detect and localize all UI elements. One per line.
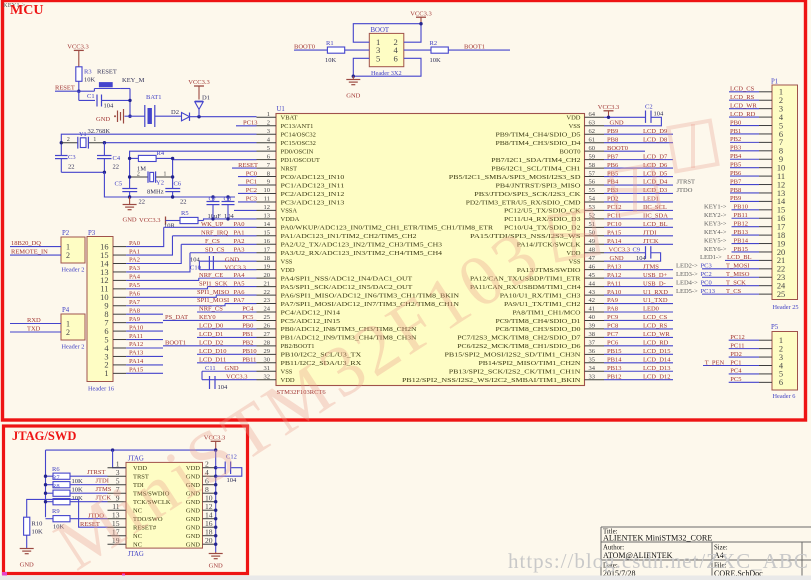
pin 32 VDD xyxy=(257,373,295,384)
wire P1 pin12 PB7 xyxy=(730,178,772,185)
wire pin64 VCC3.3 with capacitor C2 xyxy=(604,103,664,126)
wire row pin16 PA2 xyxy=(181,243,256,245)
svg-text:PA13: PA13 xyxy=(607,263,621,270)
net label JTDO xyxy=(88,512,104,519)
svg-text:LCD_D12: LCD_D12 xyxy=(643,373,670,380)
svg-text:PC13/ANT1: PC13/ANT1 xyxy=(281,123,314,130)
svg-text:104: 104 xyxy=(104,103,115,110)
pin 54 PD2 xyxy=(466,196,604,207)
svg-text:8: 8 xyxy=(267,170,270,177)
svg-text:64: 64 xyxy=(589,111,596,118)
pin 12 VSSA xyxy=(257,204,298,215)
pin 64 VDD xyxy=(566,111,604,122)
svg-text:RESET: RESET xyxy=(97,69,117,76)
pin 21 PA5 xyxy=(257,280,413,291)
wire P1 pin23 LED3->PC2 T_MISO xyxy=(676,271,772,278)
wire row pin23 PA7 xyxy=(225,303,257,305)
svg-text:MCU: MCU xyxy=(10,3,43,18)
svg-text:9: 9 xyxy=(267,179,270,186)
svg-text:KEY3->: KEY3-> xyxy=(704,220,727,227)
wire P1 pin14 PB9 xyxy=(730,195,772,202)
JTAG/SWD section title xyxy=(12,429,76,443)
wire P1 pin6 PB1 xyxy=(730,128,772,135)
svg-text:PB12/SPI2_NSS/I2S2_WS/I2C2_SMB: PB12/SPI2_NSS/I2S2_WS/I2C2_SMBAI/TIM1_BK… xyxy=(402,377,581,384)
wire row pin28 PB2 xyxy=(163,345,257,347)
wire row pin42 PA9 xyxy=(604,297,673,304)
svg-text:GND: GND xyxy=(610,255,624,262)
svg-text:PC3/ADC123_IN13: PC3/ADC123_IN13 xyxy=(281,199,345,206)
svg-text:PA10: PA10 xyxy=(129,324,143,331)
svg-text:PA10: PA10 xyxy=(607,289,621,296)
svg-text:18: 18 xyxy=(264,255,271,262)
svg-text:JTDO: JTDO xyxy=(677,187,693,194)
wire pin48 VCC3.3 with capacitor C9 xyxy=(604,246,661,262)
svg-text:PC9: PC9 xyxy=(607,314,618,321)
pin 30 PB11 xyxy=(257,356,362,367)
svg-text:10K: 10K xyxy=(84,77,96,84)
resistor R2 xyxy=(430,40,449,64)
svg-text:PD2: PD2 xyxy=(730,351,742,358)
power VCC3.3 (D1) xyxy=(188,79,210,100)
svg-text:PC3: PC3 xyxy=(701,263,712,270)
svg-text:T_MISO: T_MISO xyxy=(726,271,750,278)
svg-text:10K: 10K xyxy=(325,57,337,64)
wire P3 PA8 xyxy=(113,307,163,314)
label JTDO (PB3) xyxy=(677,187,693,194)
svg-text:SPI1_MOSI: SPI1_MOSI xyxy=(197,297,229,304)
stub JTAG pin 9 xyxy=(108,501,127,503)
svg-text:PC4: PC4 xyxy=(242,306,254,313)
svg-text:19: 19 xyxy=(264,263,271,270)
pin 10 PC2 xyxy=(257,187,345,198)
svg-text:PC8/TIM8_CH3/SDIO_D0: PC8/TIM8_CH3/SDIO_D0 xyxy=(496,326,581,333)
wire P1 pin17 KEY3 PB12 xyxy=(704,220,772,227)
net label JTDI xyxy=(96,477,109,484)
pin 24 PC4 xyxy=(257,306,341,317)
svg-text:5: 5 xyxy=(267,145,270,152)
svg-text:P5: P5 xyxy=(771,324,779,331)
svg-text:T_CS: T_CS xyxy=(726,288,742,295)
wire row pin17 PA3 xyxy=(190,252,257,254)
pin 25 PC5 xyxy=(257,314,341,325)
svg-text:20: 20 xyxy=(205,536,213,545)
svg-text:R1: R1 xyxy=(326,40,334,47)
wire P1 pin19 KEY5 PB14 xyxy=(704,237,772,244)
svg-text:PD1/OSCOUT: PD1/OSCOUT xyxy=(281,157,320,164)
resistor R1 xyxy=(325,40,345,64)
svg-text:U1_RXD: U1_RXD xyxy=(643,289,668,296)
svg-text:17: 17 xyxy=(264,246,271,253)
pin 5 PD0 xyxy=(257,145,314,156)
svg-text:R4: R4 xyxy=(157,150,165,157)
resistor R10 10K xyxy=(24,499,79,548)
svg-text:2: 2 xyxy=(67,136,70,143)
pin 8 PC0 xyxy=(257,170,345,181)
pin 40 PC9 xyxy=(496,314,605,325)
wire P1 pin25 LED5->PC13 T_CS xyxy=(676,288,772,295)
svg-text:WK_UP: WK_UP xyxy=(201,221,224,228)
svg-text:LED5->: LED5-> xyxy=(676,288,698,295)
svg-text:59: 59 xyxy=(589,153,596,160)
svg-text:LCD_D1: LCD_D1 xyxy=(199,331,223,338)
wire row pin58 PB6 xyxy=(604,162,673,169)
svg-text:30: 30 xyxy=(264,356,271,363)
svg-text:LCD_D11: LCD_D11 xyxy=(199,356,226,363)
svg-text:LCD_D7: LCD_D7 xyxy=(643,153,668,160)
svg-text:R8: R8 xyxy=(52,483,60,490)
pin 34 PB13 xyxy=(449,365,604,376)
wire P1 pin21 LED1 LCD_BL xyxy=(700,254,772,261)
svg-text:R10: R10 xyxy=(32,521,43,528)
net label PC13 pin2 xyxy=(236,119,258,126)
pin 43 PA10 xyxy=(500,289,604,300)
wire P1 pin8 PB3 xyxy=(730,145,772,152)
svg-text:PD0/OSCIN: PD0/OSCIN xyxy=(281,148,314,155)
pin 59 PB7 xyxy=(491,153,604,164)
svg-text:R5: R5 xyxy=(181,210,189,217)
svg-text:35: 35 xyxy=(589,356,596,363)
svg-text:PB4: PB4 xyxy=(730,153,742,160)
svg-text:PC0: PC0 xyxy=(246,170,257,177)
svg-text:LCD_D10: LCD_D10 xyxy=(199,348,226,355)
pin 48 VDD xyxy=(566,246,604,257)
wire row pin50 PA15 xyxy=(604,230,673,237)
pin 41 PA8 xyxy=(513,306,605,317)
svg-text:RXD: RXD xyxy=(27,317,41,324)
svg-text:C1: C1 xyxy=(87,93,95,100)
svg-text:PA2: PA2 xyxy=(129,257,140,264)
ground (JTAG right) xyxy=(209,552,223,570)
svg-text:VCC3.3: VCC3.3 xyxy=(598,104,620,111)
pin 53 PC12 xyxy=(504,204,604,215)
svg-text:PB9/TIM4_CH4/SDIO_D5: PB9/TIM4_CH4/SDIO_D5 xyxy=(496,132,581,139)
svg-text:USB_D-: USB_D- xyxy=(643,280,666,287)
svg-text:Header 16: Header 16 xyxy=(88,386,114,393)
svg-text:42: 42 xyxy=(589,297,596,304)
wire P1 pin15 KEY1 PB10 xyxy=(704,204,772,211)
header P5 Header 6 xyxy=(771,324,798,400)
bottom edge band xyxy=(0,576,811,580)
svg-text:ALIENTEK MiniSTM32_CORE: ALIENTEK MiniSTM32_CORE xyxy=(603,534,712,543)
svg-text:PA1/ADC123_IN1/TIM2_CH2/TIM5_C: PA1/ADC123_IN1/TIM2_CH2/TIM5_CH2 xyxy=(281,233,417,240)
svg-text:PB15: PB15 xyxy=(607,348,621,355)
svg-text:PA3/U2_RX/ADC123_IN3/TIM2_CH4/: PA3/U2_RX/ADC123_IN3/TIM2_CH4/TIM5_CH4 xyxy=(281,250,443,257)
diode D2 xyxy=(171,109,257,121)
svg-text:PB5/I2C1_SMBA/SPI3_MOSI/I2S3_S: PB5/I2C1_SMBA/SPI3_MOSI/I2S3_SD xyxy=(449,174,581,181)
svg-text:PC14/OSC32: PC14/OSC32 xyxy=(281,132,316,139)
pin 60 BOOT0 xyxy=(560,145,604,156)
pin 29 PB10 xyxy=(257,348,362,359)
svg-text:PC12: PC12 xyxy=(730,334,744,341)
wire P5 pin1 PC12 xyxy=(729,334,772,341)
wire pin3 PC14 to crystal xyxy=(60,134,257,155)
net label RESET (JTAG) xyxy=(79,499,108,528)
diode D1 xyxy=(195,95,210,117)
wire P1 pin10 PB5 xyxy=(730,161,772,168)
wire P1 pin16 KEY2 PB11 xyxy=(704,212,772,219)
wire P3 PA3 xyxy=(113,253,190,272)
net label PC5 xyxy=(242,314,253,321)
svg-text:104: 104 xyxy=(636,255,647,262)
wire row pin60 BOOT0 xyxy=(604,145,645,152)
net label PA2 xyxy=(234,238,245,245)
svg-text:LCD_RS: LCD_RS xyxy=(730,94,755,101)
corner text KEY1 xyxy=(3,2,26,9)
svg-text:10K: 10K xyxy=(32,529,44,536)
svg-text:6: 6 xyxy=(394,53,399,63)
pin 33 PB12 xyxy=(402,373,604,384)
svg-text:1: 1 xyxy=(104,369,108,378)
svg-text:PA15: PA15 xyxy=(607,230,621,237)
wire row pin26 PB0 xyxy=(197,328,257,330)
svg-text:16: 16 xyxy=(264,238,271,245)
svg-text:GND: GND xyxy=(225,257,239,264)
svg-text:14: 14 xyxy=(264,221,271,228)
svg-text:GND: GND xyxy=(186,542,200,549)
svg-text:GND: GND xyxy=(186,525,200,532)
svg-text:PB10: PB10 xyxy=(734,204,748,211)
svg-text:PC2: PC2 xyxy=(701,271,712,278)
connector JTAG (box) xyxy=(112,456,213,559)
svg-text:GND: GND xyxy=(186,533,200,540)
svg-text:GND: GND xyxy=(96,116,110,123)
wire P1 pin24 LED4->PC0 T_SCK xyxy=(676,279,772,286)
svg-text:2: 2 xyxy=(267,119,270,126)
svg-text:LCD_D14: LCD_D14 xyxy=(643,356,671,363)
pin 31 VSS xyxy=(257,365,293,376)
svg-text:PB9: PB9 xyxy=(607,128,618,135)
svg-text:10R: 10R xyxy=(164,223,176,230)
svg-text:PC5: PC5 xyxy=(730,376,741,383)
svg-text:LED2->: LED2-> xyxy=(676,263,698,270)
wire P1 pin4 LCD_RD xyxy=(729,111,772,118)
capacitor C11 104 with GND/VCC3.3 rows 31-32 xyxy=(202,365,257,391)
wire P3 PA12 xyxy=(113,341,163,348)
svg-text:PA8: PA8 xyxy=(129,307,140,314)
svg-text:PC0: PC0 xyxy=(701,279,712,286)
svg-text:60: 60 xyxy=(589,145,596,152)
svg-text:P4: P4 xyxy=(62,307,70,314)
net label PB0 xyxy=(242,323,253,330)
svg-text:PC3: PC3 xyxy=(246,196,257,203)
wire row pin39 PC8 xyxy=(604,323,673,330)
svg-text:61: 61 xyxy=(589,136,596,143)
svg-text:C2: C2 xyxy=(645,103,653,110)
svg-text:JTAG/SWD: JTAG/SWD xyxy=(12,429,76,443)
svg-text:JTRST: JTRST xyxy=(87,469,105,476)
stub JTAG pin 8 xyxy=(203,492,216,494)
svg-text:45: 45 xyxy=(589,272,596,279)
svg-text:PC2/ADC123_IN12: PC2/ADC123_IN12 xyxy=(281,191,345,198)
pin 28 PB2 xyxy=(257,340,315,351)
wire row pin55 PB3 xyxy=(604,187,673,194)
svg-text:PS_DAT: PS_DAT xyxy=(165,314,188,321)
svg-text:29: 29 xyxy=(264,348,271,355)
wire row pin30 PB11 xyxy=(197,362,257,364)
wire row pin53 PC12 xyxy=(604,204,673,211)
wire P5 pin4 PC1 xyxy=(703,359,772,366)
svg-text:41: 41 xyxy=(589,306,596,313)
net label F_CS xyxy=(205,238,220,245)
svg-text:BOOT0: BOOT0 xyxy=(560,148,581,155)
MCU section title xyxy=(10,3,43,18)
header P3 Header 16 xyxy=(87,230,114,393)
wire row pin62 PB9 xyxy=(604,128,673,135)
svg-text:PA3: PA3 xyxy=(234,246,245,253)
pin 46 PA13 xyxy=(517,263,604,274)
stub JTAG pin 19 xyxy=(108,543,127,545)
svg-text:PC4/ADC12_IN14: PC4/ADC12_IN14 xyxy=(281,309,341,316)
svg-text:21: 21 xyxy=(264,280,271,287)
pin 19 VDD xyxy=(257,263,295,274)
svg-text:20: 20 xyxy=(264,272,271,279)
svg-text:54: 54 xyxy=(589,196,596,203)
stub JTAG pin 15 xyxy=(108,526,127,528)
svg-text:PC7: PC7 xyxy=(607,331,619,338)
pin 42 PA9 xyxy=(504,297,604,308)
svg-text:PA11: PA11 xyxy=(607,280,621,287)
svg-text:34: 34 xyxy=(589,365,596,372)
wire pin4 to R2 to BOOT1 xyxy=(404,49,510,51)
svg-text:37: 37 xyxy=(589,340,596,347)
svg-text:RESET: RESET xyxy=(238,162,258,169)
svg-text:62: 62 xyxy=(589,128,596,135)
wire row pin15 PA1 xyxy=(173,235,257,237)
svg-text:PB11: PB11 xyxy=(734,212,748,219)
svg-text:VDD: VDD xyxy=(281,267,295,274)
capacitor C1 104 xyxy=(87,93,130,110)
svg-text:PA9: PA9 xyxy=(129,316,140,323)
wire row pin25 PC5 xyxy=(163,319,257,321)
svg-text:PC6/I2S2_MCK/TIM8_CH1/SDIO_D6: PC6/I2S2_MCK/TIM8_CH1/SDIO_D6 xyxy=(457,343,581,350)
svg-text:PB10: PB10 xyxy=(242,348,256,355)
svg-text:PB1: PB1 xyxy=(242,331,253,338)
power VCC3.3 (BOOT header) xyxy=(410,11,432,24)
wire P1 pin20 KEY6 PB15 xyxy=(704,246,772,253)
stub JTAG pin 11 xyxy=(108,509,127,511)
svg-text:PB2: PB2 xyxy=(730,136,741,143)
wire P3 PA0 xyxy=(113,227,164,246)
svg-text:BOOT1: BOOT1 xyxy=(165,340,186,347)
svg-text:23: 23 xyxy=(264,297,271,304)
svg-text:32.768K: 32.768K xyxy=(88,128,111,135)
stub JTAG pin 2 xyxy=(203,467,216,469)
wire R3 to reset node xyxy=(77,81,80,93)
net label LCD_D10 xyxy=(199,348,226,355)
wire row pin56 PB4 xyxy=(604,179,673,186)
svg-text:PB13: PB13 xyxy=(607,365,621,372)
svg-text:LED1->: LED1-> xyxy=(700,254,722,261)
wire P3 PA7 xyxy=(113,299,225,306)
net label PA1 xyxy=(234,230,245,237)
pin 20 PA4 xyxy=(257,272,413,283)
svg-text:104: 104 xyxy=(190,257,201,264)
net label PB2 xyxy=(242,340,253,347)
wire P5 pin3 PD2 xyxy=(729,351,772,358)
svg-text:24: 24 xyxy=(264,306,271,313)
svg-text:JTDI: JTDI xyxy=(643,230,656,237)
power VCC3.3 (R3) xyxy=(67,44,89,67)
svg-text:JTRST: JTRST xyxy=(677,179,695,186)
svg-text:22: 22 xyxy=(139,199,146,206)
svg-text:PB7: PB7 xyxy=(730,178,742,185)
net label RESET pin7 xyxy=(232,162,258,169)
svg-text:GND: GND xyxy=(610,119,624,126)
net label WK_UP xyxy=(201,221,224,228)
svg-text:PB0: PB0 xyxy=(730,119,741,126)
svg-text:LCD_D2: LCD_D2 xyxy=(199,340,223,347)
svg-text:6: 6 xyxy=(779,378,783,387)
svg-text:Header 6: Header 6 xyxy=(773,393,796,400)
svg-text:GND: GND xyxy=(20,562,34,569)
svg-text:PB6: PB6 xyxy=(730,170,742,177)
svg-text:Header 25: Header 25 xyxy=(773,304,799,311)
power VCC3.3 (JTAG) xyxy=(204,435,226,451)
svg-text:JTCK: JTCK xyxy=(643,238,659,245)
net label PA4 xyxy=(234,272,246,279)
svg-text:VBAT: VBAT xyxy=(281,115,298,122)
svg-text:VDDA: VDDA xyxy=(281,216,300,223)
net label PC0 pin8 xyxy=(238,170,257,177)
svg-text:C10: C10 xyxy=(190,265,201,272)
svg-text:PC1/ADC123_IN11: PC1/ADC123_IN11 xyxy=(281,182,345,189)
pin 50 PA15 xyxy=(470,230,604,241)
wire P1 pin3 LCD_WR xyxy=(729,102,772,109)
svg-text:KEY0: KEY0 xyxy=(199,314,216,321)
svg-text:LCD_D13: LCD_D13 xyxy=(643,365,670,372)
stub JTAG pin 1 xyxy=(108,467,127,469)
svg-text:2: 2 xyxy=(137,170,140,177)
wire P1 pin9 PB4 xyxy=(730,153,772,160)
svg-text:PC1: PC1 xyxy=(246,179,257,186)
svg-text:KEY6->: KEY6-> xyxy=(704,246,727,253)
wire P1 pin13 PB8 xyxy=(730,187,772,194)
svg-text:27: 27 xyxy=(264,331,271,338)
net label LCD_D11 xyxy=(199,356,226,363)
wire P1 pin2 LCD_RS xyxy=(729,94,772,101)
stub JTAG pin 3 xyxy=(108,475,127,477)
svg-text:Header 2: Header 2 xyxy=(62,267,85,274)
wire P1 pin11 PB6 xyxy=(730,170,772,177)
svg-text:22: 22 xyxy=(264,289,271,296)
net label PC3 pin11 xyxy=(238,196,257,203)
svg-text:JTMS: JTMS xyxy=(643,263,659,270)
svg-text:57: 57 xyxy=(589,170,596,177)
pin 61 PB8 xyxy=(496,136,605,147)
pin 2 PC13 xyxy=(257,119,314,130)
wire row pin59 PB7 xyxy=(604,153,673,160)
stub JTAG pin 6 xyxy=(203,484,216,486)
svg-text:13: 13 xyxy=(264,213,271,220)
svg-text:KEY2->: KEY2-> xyxy=(704,212,727,219)
resistor R (JTCK) 10K (row 4) xyxy=(44,499,108,505)
svg-text:IIC_SDA: IIC_SDA xyxy=(643,213,668,220)
svg-text:SD_CS: SD_CS xyxy=(205,246,225,253)
svg-text:PB3: PB3 xyxy=(730,145,741,152)
capacitor C5 22 xyxy=(115,181,146,206)
wire crystal caps to ground rail xyxy=(61,171,129,197)
svg-text:12: 12 xyxy=(264,204,271,211)
svg-text:PB2: PB2 xyxy=(242,340,253,347)
svg-text:PC0/ADC123_IN10: PC0/ADC123_IN10 xyxy=(281,174,345,181)
svg-text:PB12: PB12 xyxy=(607,373,621,380)
net label JTMS xyxy=(96,486,112,493)
pin 39 PC8 xyxy=(496,323,605,334)
svg-text:PB1: PB1 xyxy=(730,128,741,135)
svg-text:KEY_M: KEY_M xyxy=(122,77,145,84)
svg-text:PB4/JNTRST/SPI3_MISO: PB4/JNTRST/SPI3_MISO xyxy=(496,182,581,189)
wire row pin34 PB13 xyxy=(604,365,673,372)
